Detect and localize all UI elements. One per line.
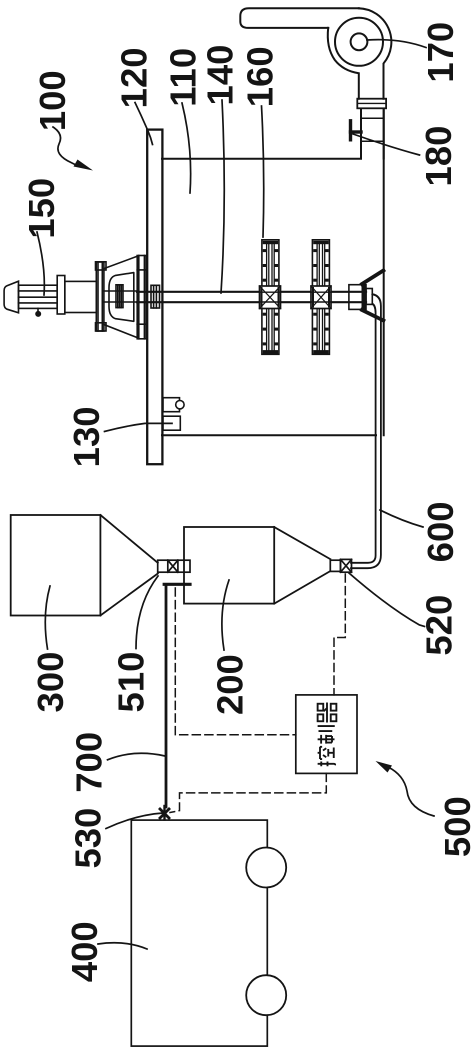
leader 600: [380, 510, 423, 527]
svg-text:300: 300: [30, 652, 71, 713]
leader line 100 with arrow: [53, 127, 78, 166]
svg-text:110: 110: [162, 48, 203, 107]
svg-text:200: 200: [210, 654, 251, 715]
fitting 130 on tank wall: [163, 398, 184, 431]
pipe joint lines: [361, 117, 384, 119]
svg-text:180: 180: [418, 126, 459, 187]
svg-text:520: 520: [419, 595, 460, 656]
dashed control line valve520 to controller: [334, 574, 345, 695]
dashed control line valve510 to controller: [170, 574, 345, 813]
coupling hub: [116, 285, 123, 308]
hopper 300: [11, 515, 158, 616]
blade assembly 1 (160): [260, 240, 281, 354]
svg-text:160: 160: [239, 46, 280, 107]
leader 400: [98, 943, 147, 949]
tank bottom wall: [162, 434, 376, 436]
controller text 控制器 drawn as strokes (rotated): [318, 703, 337, 767]
svg-text:130: 130: [66, 406, 107, 467]
leader 200: [222, 580, 229, 650]
leader 180: [353, 134, 420, 155]
bell housing window: [109, 273, 134, 322]
tank right wall: [383, 110, 385, 436]
leader 110: [182, 103, 191, 193]
tank cone outlet thick lines: [362, 271, 383, 285]
svg-text:100: 100: [32, 70, 73, 131]
drip circle: [37, 308, 39, 311]
wheel 2: [246, 975, 286, 1015]
leader 700: [108, 753, 166, 760]
svg-text:700: 700: [69, 732, 110, 793]
char 器 (top): [318, 703, 337, 723]
blower middle circle: [335, 18, 383, 66]
svg-text:500: 500: [437, 796, 474, 857]
leader 140: [221, 100, 224, 293]
svg-text:400: 400: [64, 921, 105, 982]
flange on blower pipe: [357, 99, 386, 109]
valve 180 T-symbol: [349, 121, 352, 140]
motor 150 assembly: [4, 256, 159, 339]
blower duct: [240, 8, 358, 28]
motor body with ribs: [19, 285, 58, 308]
motor end cap: [4, 281, 18, 313]
char 制 (middle): [318, 726, 335, 744]
valve 530: [160, 806, 169, 820]
agitator shaft: [137, 291, 366, 293]
svg-text:150: 150: [21, 178, 62, 239]
pipe 700: [165, 586, 168, 807]
shaft through bell housing: [104, 291, 137, 302]
leader 130: [105, 423, 173, 431]
shaft end bearing at tank outlet: [349, 285, 366, 310]
svg-text:530: 530: [68, 808, 109, 869]
wheel 1: [246, 848, 286, 888]
valve 510: [158, 560, 190, 572]
svg-text:510: 510: [111, 652, 152, 713]
leader 120: [135, 103, 153, 145]
mount plate 1: [96, 262, 104, 331]
leader 300: [45, 586, 50, 649]
leader 530: [106, 813, 163, 829]
leader 510: [136, 576, 158, 649]
svg-text:120: 120: [114, 47, 155, 108]
svg-text:170: 170: [420, 22, 461, 83]
char 控 (bottom): [318, 747, 336, 767]
leader 160: [262, 106, 264, 237]
pipe between flange and tank: [361, 110, 384, 159]
pipe 600: [351, 294, 381, 568]
hub at lid: [151, 285, 160, 308]
flange bar under valve 510: [164, 583, 190, 586]
tank lid 120: [147, 130, 162, 465]
hopper 200: [184, 527, 330, 604]
leader 500 with arrow: [388, 767, 434, 816]
blade assembly 2 (160): [311, 240, 331, 354]
truck 400: [131, 820, 267, 1046]
tank top wall: [162, 158, 361, 160]
controller box 500: [296, 695, 357, 774]
blower inner circle: [351, 33, 368, 50]
leader 150: [37, 232, 44, 295]
svg-text:600: 600: [420, 501, 461, 562]
bell housing outline: [104, 256, 137, 337]
leader 520: [349, 573, 425, 627]
collar flange: [57, 276, 65, 315]
valve 520: [330, 559, 351, 572]
mount plate 2: [137, 256, 146, 339]
svg-text:140: 140: [200, 45, 241, 106]
leader 170: [367, 40, 426, 48]
blower 170 spiral casing: [359, 8, 392, 98]
gearbox: [65, 281, 97, 312]
dashed control line controller to valve530: [170, 773, 326, 812]
